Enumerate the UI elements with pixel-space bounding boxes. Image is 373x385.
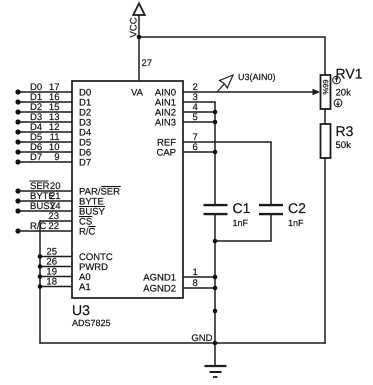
svg-text:1: 1 <box>193 267 198 278</box>
svg-text:D7: D7 <box>79 157 91 168</box>
wire PWRD stub <box>40 266 72 268</box>
terminal dots left bus <box>15 89 20 94</box>
wire ground stem <box>214 343 216 366</box>
RV1 down actuator <box>334 99 342 107</box>
svg-text:ADS7825: ADS7825 <box>72 318 111 328</box>
U3 pin names right <box>131 87 176 294</box>
probe U3(AIN0) arrow <box>217 75 233 92</box>
svg-text:U3: U3 <box>72 302 90 318</box>
svg-text:C1: C1 <box>233 200 251 216</box>
potentiometer RV1 wiper arrowhead <box>313 89 321 96</box>
resistor R3 body <box>321 124 331 158</box>
svg-text:20k: 20k <box>336 88 352 99</box>
wire GND rail <box>40 342 325 344</box>
potentiometer RV1 body <box>321 75 331 109</box>
wire CS stub <box>40 220 72 222</box>
pin numbers right <box>193 82 198 289</box>
U3 pin names left <box>79 87 120 292</box>
svg-text:R3: R3 <box>336 123 354 139</box>
wire CONTC stub <box>40 256 72 258</box>
pin numbers left <box>46 82 60 288</box>
wire CAP stub <box>183 151 215 153</box>
wire SER <box>18 190 72 192</box>
wire D2 <box>18 111 72 113</box>
wire C2 bottom joining C1 column <box>215 214 271 241</box>
svg-text:VA: VA <box>131 87 144 98</box>
svg-text:BUSY: BUSY <box>30 201 57 212</box>
wire AIN2 stub <box>183 111 215 113</box>
svg-text:AGND2: AGND2 <box>143 283 176 294</box>
wire RC <box>18 230 72 232</box>
svg-text:6: 6 <box>193 142 198 153</box>
wire BYTE <box>18 200 72 202</box>
svg-text:AGND1: AGND1 <box>143 272 176 283</box>
wire A0 stub <box>40 276 72 278</box>
wire RV1 bottom to R3 top <box>324 109 326 124</box>
net labels left <box>30 82 57 232</box>
junction A0 <box>38 274 43 279</box>
wire D5 <box>18 141 72 143</box>
svg-text:AIN3: AIN3 <box>155 117 176 128</box>
svg-text:50k: 50k <box>336 140 352 151</box>
wire D6 <box>18 151 72 153</box>
svg-text:27: 27 <box>142 58 153 69</box>
junction AGND1 <box>213 275 218 280</box>
net label overlines <box>30 180 49 182</box>
wire CS net vertical <box>39 221 41 343</box>
svg-text:C2: C2 <box>288 200 306 216</box>
U3 pin name overlines <box>79 187 121 227</box>
wire D0 <box>18 91 72 93</box>
junction C2 bottom <box>213 239 218 244</box>
capacitor C2 plates <box>259 205 283 214</box>
svg-text:1nF: 1nF <box>233 218 249 228</box>
wire AIN3 stub <box>183 121 215 123</box>
wire REF to C2 <box>183 142 271 204</box>
svg-text:9: 9 <box>54 152 59 163</box>
wire D3 <box>18 121 72 123</box>
power VCC symbol <box>133 4 145 16</box>
svg-text:5: 5 <box>193 112 198 123</box>
svg-text:R/C: R/C <box>30 221 47 232</box>
svg-text:D7: D7 <box>30 152 42 163</box>
IC U3 body <box>72 81 183 298</box>
junction mid column <box>213 309 218 314</box>
junction CAP <box>213 150 218 155</box>
svg-text:GND: GND <box>191 333 212 344</box>
svg-text:CAP: CAP <box>156 147 176 158</box>
svg-text:22: 22 <box>48 221 59 232</box>
svg-text:66%: 66% <box>321 80 330 95</box>
junction AGND2 <box>213 286 218 291</box>
svg-text:18: 18 <box>46 277 57 288</box>
wire BUSY <box>18 210 72 212</box>
svg-text:R/C: R/C <box>79 226 96 237</box>
RV1 up actuator <box>333 76 341 84</box>
wire VCC junction to RV1 top <box>139 37 325 75</box>
capacitor C1 plates <box>204 205 228 214</box>
wire AGND1 stub <box>183 276 215 278</box>
ground symbol <box>205 366 227 377</box>
wire D4 <box>18 131 72 133</box>
junction GND rail <box>213 341 218 346</box>
junction AIN3 <box>213 120 218 125</box>
wire VCC arrow to junction <box>138 15 140 37</box>
svg-text:U3(AIN0): U3(AIN0) <box>238 72 276 82</box>
wire D1 <box>18 101 72 103</box>
svg-text:1nF: 1nF <box>288 218 304 228</box>
wire VCC junction to U3 pin 27 <box>138 37 140 81</box>
wire A1 stub <box>40 286 72 288</box>
wire AIN1 stub <box>183 102 215 204</box>
junction CONTC <box>38 254 43 259</box>
svg-text:A1: A1 <box>79 282 91 293</box>
junction A1 <box>38 284 43 289</box>
wire C1 bottom to GND junction <box>214 214 216 343</box>
wire R3 bottom to GND rail <box>324 158 326 343</box>
svg-text:8: 8 <box>193 278 198 289</box>
junction VCC node <box>137 35 142 40</box>
wire D7 <box>18 161 72 163</box>
junction AIN2 <box>213 110 218 115</box>
svg-text:VCC: VCC <box>129 17 140 37</box>
wire AIN0 row to RV1 wiper <box>183 91 315 93</box>
junction PWRD <box>38 264 43 269</box>
wire AGND2 stub <box>183 287 215 289</box>
